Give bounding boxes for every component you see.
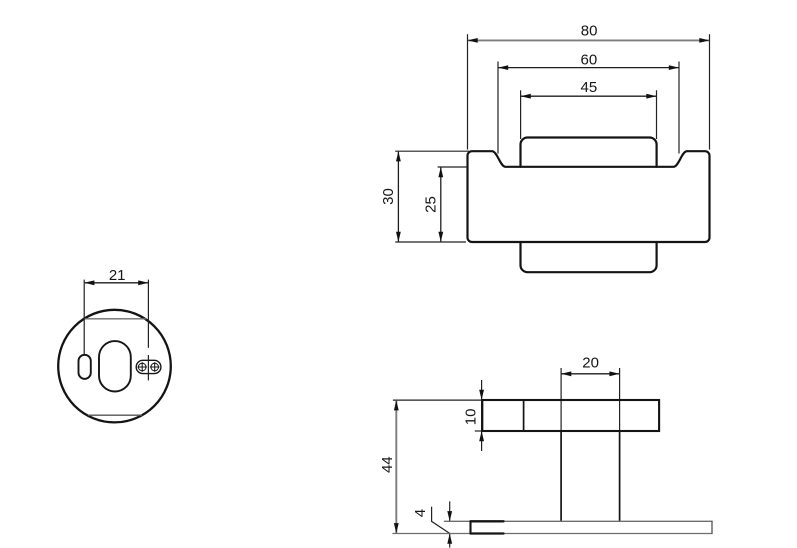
dimension line 60 <box>499 67 679 69</box>
extension line 60 right <box>678 62 680 154</box>
arrows 44 <box>394 400 399 410</box>
dimension line 4 lower part <box>449 534 451 548</box>
dimension line 80 <box>468 39 709 41</box>
side view: thick section left wall <box>469 521 471 533</box>
svg-text:10: 10 <box>463 409 480 426</box>
screw head left <box>138 363 146 371</box>
top view: lower 45-wide block (hook tip, below body) <box>521 242 657 272</box>
side view: wall plate top edge <box>444 520 712 522</box>
front view: screw slot stadium <box>136 360 161 373</box>
svg-text:25: 25 <box>423 196 440 213</box>
side view: wall plate bottom edge (merges with 44 extension) <box>393 533 712 535</box>
extension line 20 left <box>560 368 562 431</box>
arrows 30 <box>396 151 401 161</box>
extension line 30 top <box>395 150 469 152</box>
extension line 30/25 bottom <box>395 241 466 243</box>
svg-text:21: 21 <box>109 267 126 284</box>
top view: body outline with ears <box>468 151 710 242</box>
extension line 80 left <box>467 34 469 149</box>
extension line bar top (44 + 10 dims) <box>393 399 482 401</box>
extension line 21 left (to slot centre) <box>83 280 85 355</box>
side view: hook bar rectangle <box>482 400 659 431</box>
screw head right <box>151 363 159 371</box>
side view: thick section bottom <box>471 532 504 534</box>
arrows 10 (outside) <box>479 390 484 400</box>
svg-text:80: 80 <box>581 23 598 40</box>
arrows 21 <box>84 280 94 285</box>
front view: lower body edge chord <box>89 414 142 416</box>
dimension line 44 <box>395 401 397 533</box>
side view: stem right edge <box>619 431 621 521</box>
extension line 60 left <box>497 62 499 154</box>
extension line 10 bottom <box>475 430 482 432</box>
svg-text:30: 30 <box>380 188 397 205</box>
arrows 80 <box>468 38 478 43</box>
extension line 25 top <box>438 166 467 168</box>
side view: inner edge of 45 block <box>523 400 525 431</box>
front view: small slot <box>79 355 91 379</box>
leader for 4 <box>432 507 450 534</box>
extension line 80 right <box>709 34 711 149</box>
arrows 45 <box>521 94 531 99</box>
dimension line 30 <box>397 152 399 242</box>
front view: round wall plate <box>58 310 171 423</box>
extension line 21 right (to screw centre, with gap) <box>147 280 149 348</box>
side view: wall plate right edge <box>711 521 713 533</box>
top view: upper 45-wide block (hook bar, behind body) <box>521 138 657 167</box>
dimension line 10 (vertical, through) <box>481 380 483 451</box>
dimension line 25 <box>440 168 442 242</box>
extension line 20 right <box>619 368 621 431</box>
front view: central oval cutout <box>99 341 131 391</box>
front view: upper body edge chord <box>85 318 146 320</box>
extension line 45 left <box>520 90 522 139</box>
svg-text:60: 60 <box>581 52 598 69</box>
arrows 4 (outside) <box>447 511 452 521</box>
dimension line 20 <box>562 373 620 375</box>
dimension line 4 upper part <box>449 501 451 521</box>
arrows 20 <box>561 371 571 376</box>
side view: thick section top <box>471 520 504 522</box>
arrows 25 <box>438 167 443 177</box>
dimension line 21 <box>85 282 148 284</box>
dimension line 45 <box>521 95 656 97</box>
arrows 60 <box>498 65 508 70</box>
svg-text:45: 45 <box>581 79 598 96</box>
side view: stem left edge <box>560 431 562 521</box>
svg-text:4: 4 <box>412 509 429 517</box>
extension line 45 right <box>656 90 658 139</box>
svg-text:44: 44 <box>379 456 396 473</box>
svg-text:20: 20 <box>582 355 599 372</box>
